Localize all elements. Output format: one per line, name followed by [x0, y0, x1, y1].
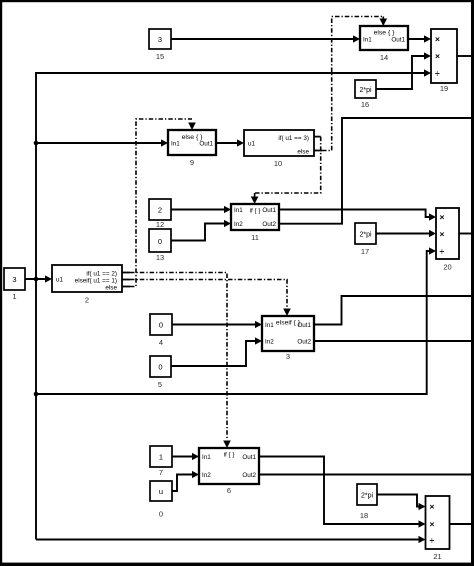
svg-text:2*pi: 2*pi — [361, 493, 374, 500]
svg-text:11: 11 — [251, 233, 259, 242]
svg-text:In1: In1 — [363, 37, 372, 44]
junction at (36,143) — [34, 141, 39, 146]
action subsystem block 9 else {} — [168, 130, 216, 167]
control wire block10 else-output to block 14 action port (dash-dot) — [314, 17, 387, 151]
svg-text:else { }: else { } — [374, 30, 396, 37]
control wire block2 elseif-output to block 3 action port (dash-dot) — [122, 280, 291, 317]
constant block 4 value 0 — [150, 314, 172, 347]
constant block 7 value 1 — [150, 446, 172, 477]
wire constant-3 to product19 divide input — [36, 69, 431, 76]
wire constant18 to product21 input1 — [377, 495, 426, 511]
svg-text:×: × — [435, 34, 440, 44]
svg-text:÷: ÷ — [440, 246, 445, 256]
svg-text:0: 0 — [159, 510, 163, 519]
svg-text:elseif( u1 == 1): elseif( u1 == 1) — [75, 278, 117, 285]
wire product19 output to right border — [457, 55, 472, 57]
svg-text:else: else — [297, 149, 309, 156]
action subsystem block 11 if {} — [231, 204, 279, 242]
svg-text:7: 7 — [159, 468, 163, 477]
svg-text:Out1: Out1 — [199, 141, 213, 148]
wire block3 Out2 to right border — [314, 340, 472, 342]
constant block 15 value 3 — [149, 29, 171, 61]
wire block6 Out1 to product21 input2 — [259, 457, 426, 528]
wire constant15 to In1 of block 14 — [171, 35, 360, 42]
svg-text:In1: In1 — [265, 322, 274, 329]
wire block9 Out1 to u1 of If block 10 — [216, 139, 244, 146]
wire constant13 to In2 of block 11 — [171, 220, 231, 241]
svg-text:In1: In1 — [234, 207, 243, 214]
wire constant1 to u1 of If block 2 — [25, 275, 52, 282]
svg-text:Out1: Out1 — [391, 37, 405, 44]
action subsystem block 3 elseif {} — [262, 316, 314, 361]
wire block6 Out2 to right border — [259, 474, 472, 476]
If block 2 if(u1==2)/elseif(u1==1)/else — [52, 265, 122, 305]
wire constant4 to In1 of block 3 — [172, 321, 262, 328]
wire block11 Out2 to right border — [279, 118, 472, 224]
wire constant-3 to product20 divide input — [36, 247, 436, 394]
svg-text:×: × — [440, 229, 445, 239]
svg-text:12: 12 — [156, 220, 164, 229]
wire constant5 to In2 of block 3 — [171, 337, 262, 366]
svg-text:15: 15 — [156, 52, 164, 61]
svg-text:14: 14 — [380, 53, 388, 62]
wire product21 output to right border — [450, 523, 473, 525]
wire block14 Out1 to product19 input1 — [408, 35, 431, 42]
control wire block10 if-output to block 11 action port (dash-dot) — [251, 137, 321, 204]
svg-text:Out2: Out2 — [297, 339, 311, 346]
svg-text:Out1: Out1 — [262, 207, 276, 214]
svg-text:0: 0 — [158, 237, 162, 246]
wire constant12 to In1 of block 11 — [171, 206, 231, 213]
svg-text:6: 6 — [227, 486, 231, 495]
svg-text:16: 16 — [361, 100, 369, 109]
constant block 17 2*pi — [355, 223, 376, 256]
wire constant16 to product19 input2 — [376, 52, 431, 89]
constant block 0 value u — [150, 481, 172, 519]
svg-text:u1: u1 — [248, 141, 256, 148]
constant block 16 2*pi — [355, 80, 376, 109]
svg-text:In2: In2 — [234, 221, 243, 228]
svg-text:3: 3 — [12, 275, 16, 284]
svg-text:18: 18 — [360, 511, 368, 520]
constant block 18 2*pi — [357, 484, 377, 520]
svg-text:2*pi: 2*pi — [359, 232, 372, 239]
svg-text:if { }: if { } — [224, 452, 235, 459]
svg-text:Out1: Out1 — [297, 322, 311, 329]
svg-text:1: 1 — [159, 453, 163, 462]
svg-text:1: 1 — [12, 292, 16, 301]
svg-text:Out2: Out2 — [262, 221, 276, 228]
svg-text:if( u1 == 2): if( u1 == 2) — [86, 271, 117, 278]
product block 21 — [426, 496, 450, 561]
svg-text:if { }: if { } — [250, 208, 261, 215]
svg-text:10: 10 — [274, 159, 282, 168]
svg-text:×: × — [430, 502, 435, 512]
svg-text:Out2: Out2 — [242, 472, 256, 479]
constant block 5 value 0 — [150, 356, 171, 389]
svg-text:÷: ÷ — [430, 535, 435, 545]
action subsystem block 14 else {} — [360, 26, 408, 62]
svg-text:3: 3 — [158, 35, 162, 44]
svg-text:21: 21 — [433, 552, 441, 561]
svg-text:×: × — [440, 212, 445, 222]
svg-text:In2: In2 — [202, 472, 211, 479]
svg-text:In2: In2 — [265, 339, 274, 346]
constant block 1 value 3 — [4, 268, 25, 301]
junction at (36,279) — [34, 277, 39, 282]
wire constant7 to In1 of block 6 — [172, 453, 199, 460]
action subsystem block 6 if {} — [199, 448, 259, 495]
svg-text:In1: In1 — [202, 454, 211, 461]
constant block 12 value 2 — [149, 199, 171, 229]
svg-text:else: else — [105, 285, 117, 292]
wire constant0 to In2 of block 6 — [172, 471, 199, 491]
wire block11 Out1 to product20 input1 — [279, 210, 436, 221]
control wire block2 else-output to block 9 action port (dash-dot) — [122, 119, 196, 287]
svg-text:13: 13 — [156, 253, 164, 262]
svg-text:Out1: Out1 — [242, 454, 256, 461]
svg-text:4: 4 — [159, 338, 163, 347]
constant block 13 value 0 — [149, 229, 171, 262]
svg-text:2*pi: 2*pi — [359, 87, 372, 94]
svg-text:2: 2 — [85, 296, 89, 305]
svg-text:2: 2 — [158, 206, 162, 215]
svg-text:u: u — [159, 487, 163, 496]
wire constant-3 to product21 divide input — [36, 536, 426, 543]
junction at (36,394) — [34, 392, 39, 397]
svg-text:÷: ÷ — [435, 68, 440, 78]
node constant-3 distribution vertical — [35, 73, 37, 540]
If block 10 if(u1==3)/else — [244, 130, 314, 168]
wire block3 Out1 to right border — [314, 296, 472, 325]
svg-text:20: 20 — [443, 263, 451, 272]
svg-text:In1: In1 — [171, 141, 180, 148]
control wire block2 if-output to block 6 action port (dash-dot) — [122, 273, 231, 449]
svg-text:×: × — [435, 51, 440, 61]
svg-text:×: × — [430, 519, 435, 529]
svg-text:3: 3 — [286, 352, 290, 361]
svg-text:0: 0 — [158, 363, 162, 372]
svg-text:u1: u1 — [56, 277, 64, 284]
svg-text:5: 5 — [158, 380, 162, 389]
wire constant-3 to In1 of block 9 — [36, 139, 168, 146]
svg-text:9: 9 — [190, 158, 194, 167]
svg-text:17: 17 — [361, 247, 369, 256]
svg-text:0: 0 — [159, 321, 163, 330]
wire product20 output to right border — [459, 233, 472, 235]
svg-text:if( u1 == 3): if( u1 == 3) — [278, 135, 309, 142]
product block 20 — [436, 208, 459, 272]
wire constant17 to product20 input2 — [376, 230, 436, 237]
svg-text:19: 19 — [440, 84, 448, 93]
product block 19 — [431, 29, 457, 93]
